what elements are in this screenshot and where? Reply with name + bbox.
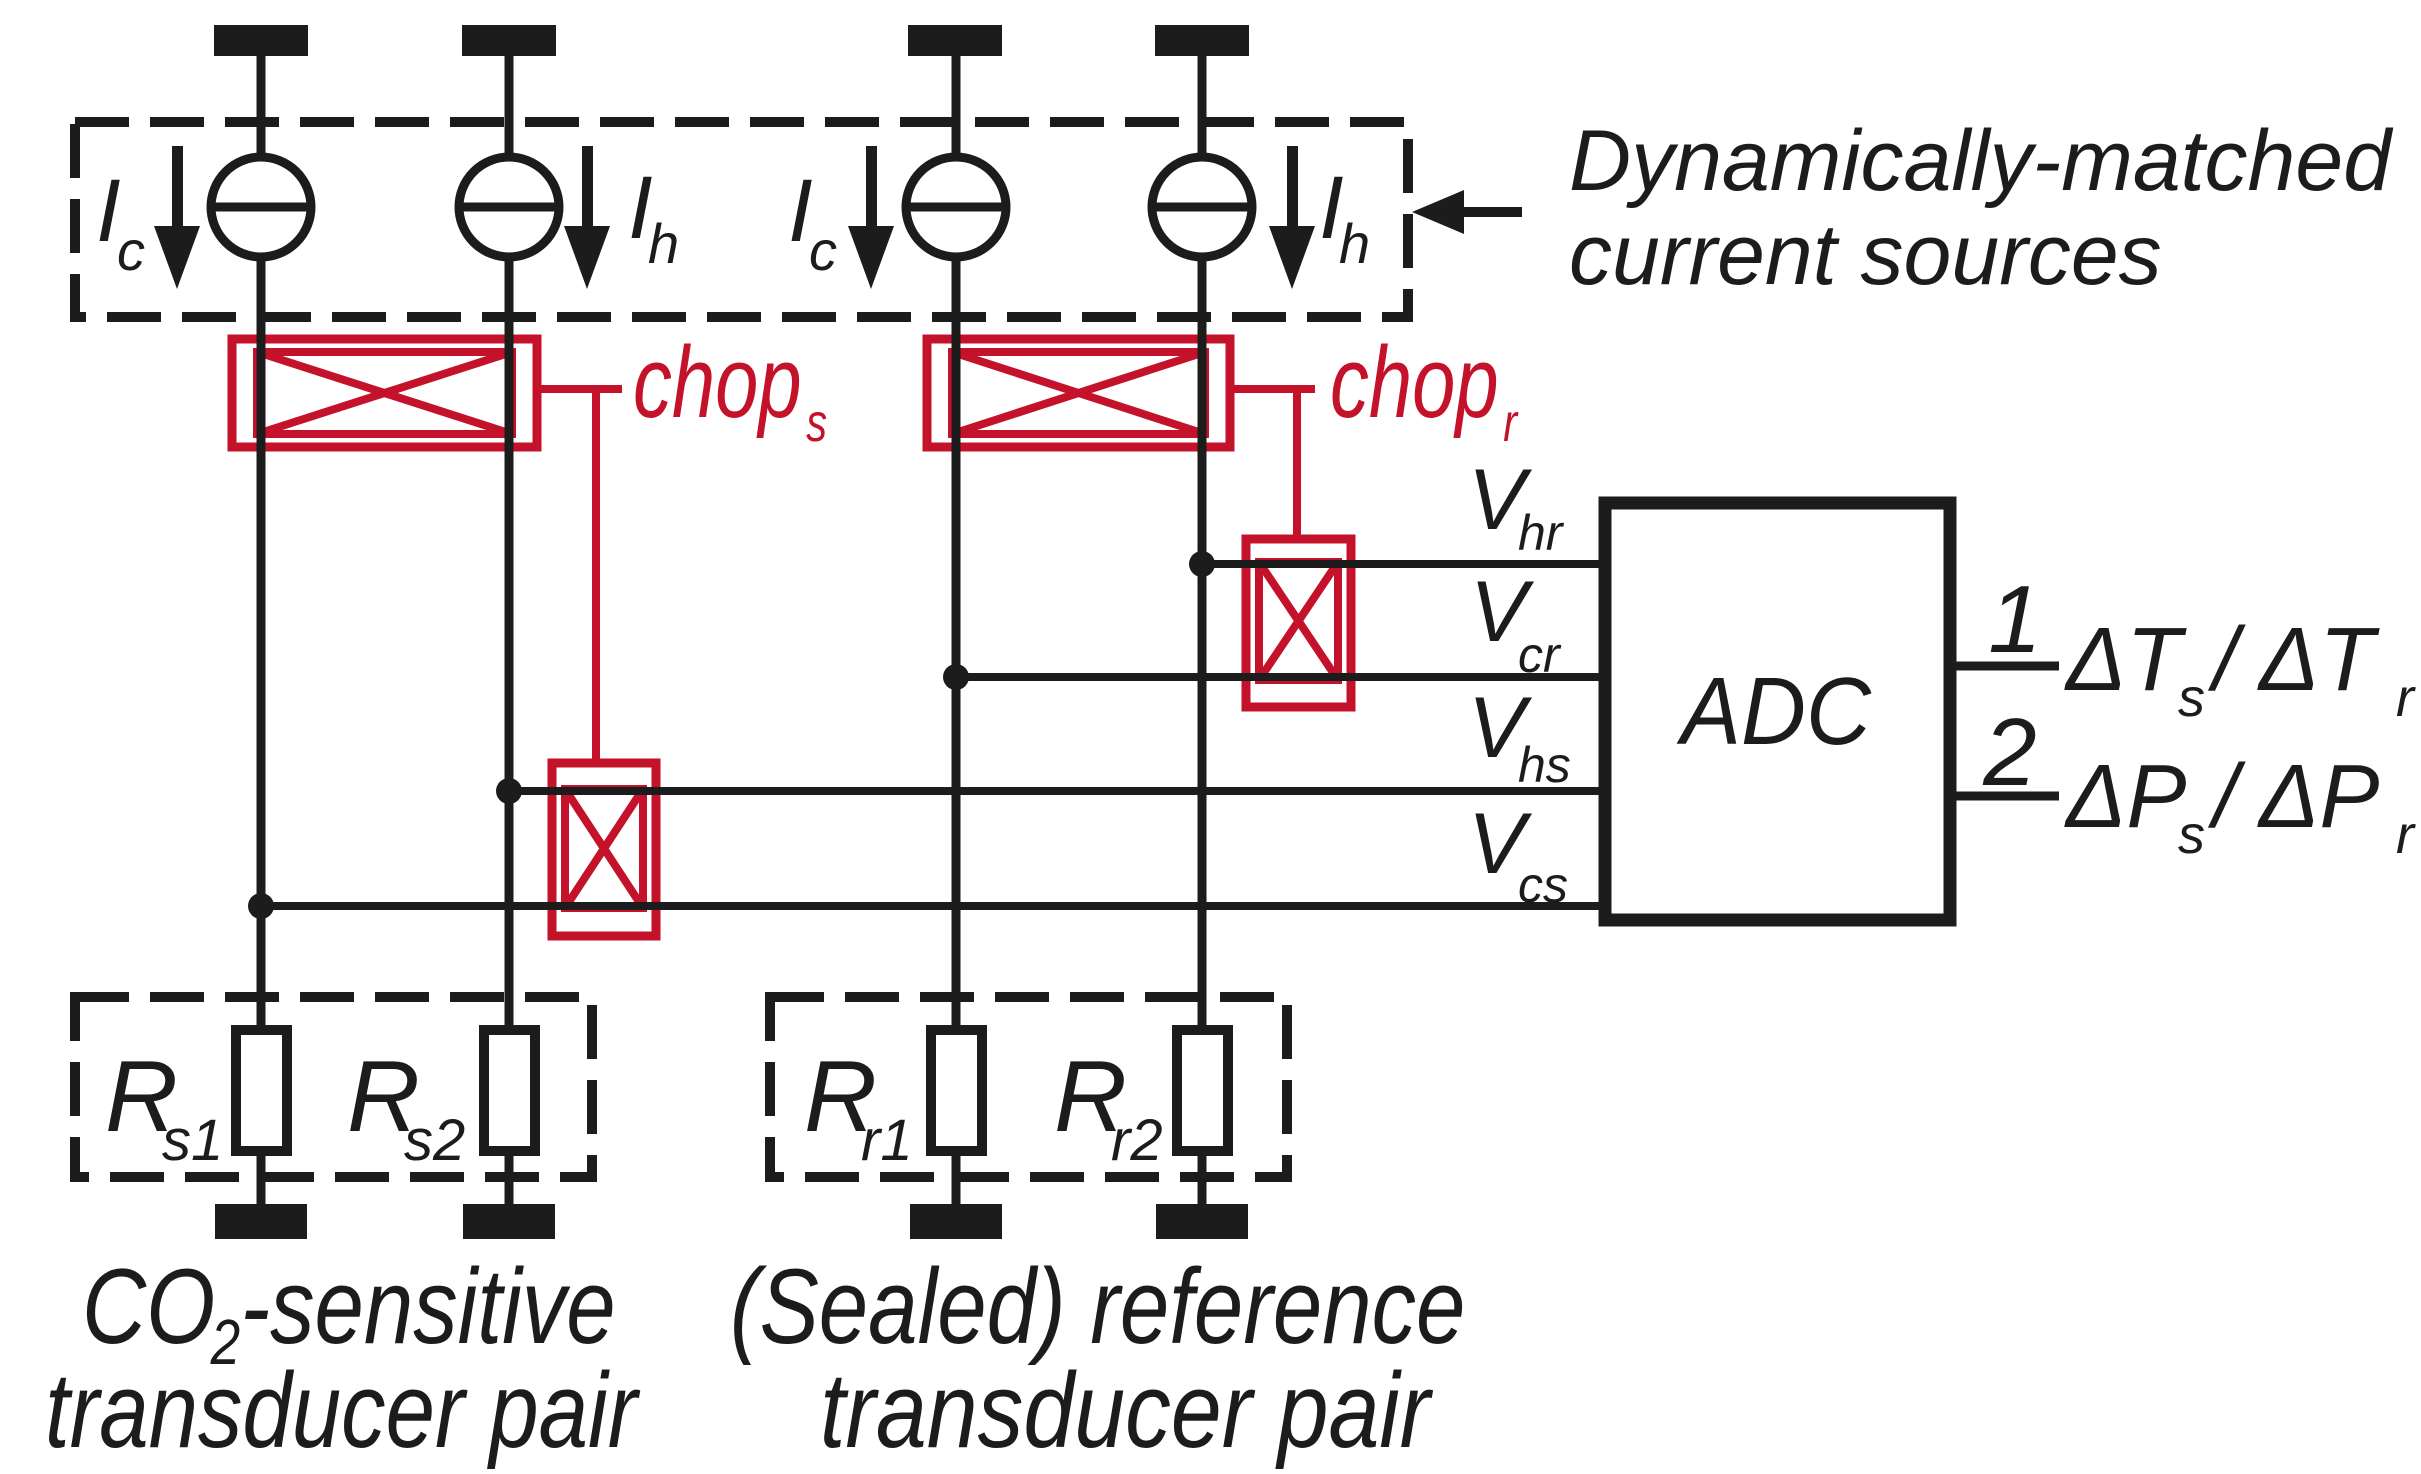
svg-text:s: s xyxy=(2178,805,2205,865)
wire Vhr xyxy=(1202,560,1605,568)
svg-text:r: r xyxy=(2396,805,2416,865)
svg-text:hr: hr xyxy=(1518,505,1565,561)
resistor Rs2 xyxy=(484,1030,535,1151)
svg-text:transducer pair: transducer pair xyxy=(45,1350,641,1470)
ADC box U1 xyxy=(1605,503,1950,920)
svg-text:chop: chop xyxy=(633,326,802,439)
chopper (vertical) on reference outputs xyxy=(1246,539,1351,707)
current source I1 xyxy=(211,157,311,257)
svg-text:s2: s2 xyxy=(404,1108,465,1173)
chop_s control line xyxy=(537,389,622,763)
junction node on W4 / Vhr xyxy=(1189,551,1215,577)
ground bar 1 xyxy=(215,1204,307,1239)
svg-text:h: h xyxy=(1339,212,1370,275)
supply bar 2 xyxy=(462,25,556,56)
ADC output wire 1 xyxy=(1950,662,2059,671)
svg-text:ΔT: ΔT xyxy=(2064,610,2187,710)
svg-text:(Sealed) reference: (Sealed) reference xyxy=(730,1246,1465,1366)
resistor Rs1 xyxy=(236,1030,287,1151)
svg-text:r2: r2 xyxy=(1111,1108,1163,1173)
svg-text:cs: cs xyxy=(1518,857,1568,913)
junction node on W2 / Vhs xyxy=(496,778,522,804)
dashed box: CO2-sensitive transducer pair xyxy=(75,997,592,1177)
svg-text:current sources: current sources xyxy=(1569,207,2162,303)
chopper chop_r (horizontal) xyxy=(927,339,1230,447)
label dTs/dTr xyxy=(2064,610,2416,728)
wire Vhs xyxy=(509,787,1605,795)
dashed box: dynamically-matched current sources xyxy=(75,122,1408,317)
resistor Rr1 xyxy=(931,1030,982,1151)
ground bar 3 xyxy=(910,1204,1002,1239)
supply bar 4 xyxy=(1155,25,1249,56)
arrow Ih2 xyxy=(564,146,610,289)
caption: transducer pair (left) xyxy=(45,1350,641,1470)
wire W4 xyxy=(1198,56,1207,1204)
svg-text:s: s xyxy=(2178,668,2205,728)
junction node on W1 / Vcs xyxy=(248,893,274,919)
svg-text:ΔP: ΔP xyxy=(2257,747,2379,847)
svg-text:-sensitive: -sensitive xyxy=(241,1246,616,1366)
supply bar 1 xyxy=(214,25,308,56)
wire W1 xyxy=(257,56,266,1204)
svg-text:2: 2 xyxy=(1982,699,2036,806)
ground bar 2 xyxy=(463,1204,555,1239)
label chop_s xyxy=(633,326,827,453)
caption: CO2-sensitive xyxy=(82,1246,616,1378)
ADC output wire 2 xyxy=(1950,792,2059,801)
svg-text:ΔP: ΔP xyxy=(2064,747,2186,847)
arrow Ih4 xyxy=(1269,146,1315,289)
ground bar 4 xyxy=(1156,1204,1248,1239)
annotation arrow to current-source box xyxy=(1412,190,1522,234)
wire W3 xyxy=(952,56,961,1204)
svg-text:ADC: ADC xyxy=(1676,658,1871,765)
svg-text:CO: CO xyxy=(82,1246,215,1366)
junction node on W3 / Vcr xyxy=(943,664,969,690)
svg-text:hs: hs xyxy=(1518,737,1571,793)
caption: (Sealed) reference xyxy=(730,1246,1465,1366)
svg-text:ΔT: ΔT xyxy=(2257,610,2380,710)
svg-text:1: 1 xyxy=(1988,566,2041,673)
wire W2 xyxy=(505,56,514,1204)
svg-text:s: s xyxy=(806,393,827,454)
chopper chop_s (horizontal) xyxy=(232,339,537,447)
svg-text:c: c xyxy=(809,219,837,282)
current source I2 xyxy=(459,157,559,257)
svg-text:cr: cr xyxy=(1518,627,1562,683)
svg-text:Dynamically-matched: Dynamically-matched xyxy=(1569,113,2394,209)
svg-text:r1: r1 xyxy=(861,1108,913,1173)
svg-text:r: r xyxy=(2396,668,2416,728)
supply bar 3 xyxy=(908,25,1002,56)
current source I4 xyxy=(1152,157,1252,257)
label dPs/dPr xyxy=(2064,747,2416,865)
svg-text:chop: chop xyxy=(1330,326,1499,439)
wire Vcr xyxy=(956,673,1605,681)
arrow Ic1 xyxy=(154,146,200,289)
caption: transducer pair (right) xyxy=(820,1351,1434,1470)
svg-text:h: h xyxy=(648,212,679,275)
svg-text:c: c xyxy=(117,219,145,282)
wire Vcs xyxy=(261,902,1605,910)
svg-text:s1: s1 xyxy=(162,1108,223,1173)
current source I3 xyxy=(906,157,1006,257)
chopper (vertical) on sensor outputs xyxy=(552,763,656,936)
resistor Rr2 xyxy=(1177,1030,1228,1151)
dashed box: sealed reference transducer pair xyxy=(770,997,1287,1177)
svg-text:transducer pair: transducer pair xyxy=(820,1351,1434,1470)
arrow Ic3 xyxy=(848,146,894,289)
label chop_r xyxy=(1330,326,1519,453)
svg-text:r: r xyxy=(1503,393,1519,454)
chop_r control line xyxy=(1230,389,1315,539)
